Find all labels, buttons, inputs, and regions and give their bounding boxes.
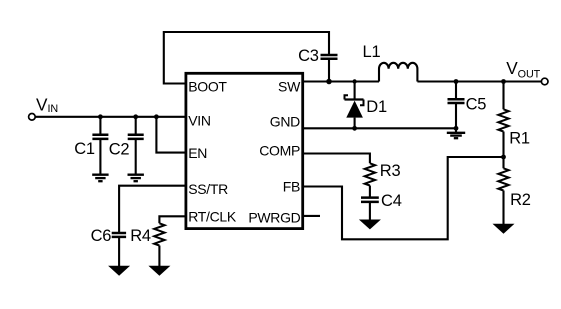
svg-text:PWRGD: PWRGD: [248, 210, 300, 226]
ground R2 (arrow): [493, 224, 515, 234]
svg-text:R3: R3: [380, 162, 401, 180]
wire COMP: [303, 154, 370, 164]
svg-text:C6: C6: [91, 227, 112, 245]
pin PWRGD stub: [303, 215, 320, 217]
svg-text:SS/TR: SS/TR: [188, 181, 228, 197]
resistor R3: [365, 162, 401, 197]
svg-text:C3: C3: [298, 47, 319, 65]
svg-text:COMP: COMP: [259, 143, 300, 159]
inductor L1: [363, 43, 418, 81]
capacitor C6: [91, 227, 127, 266]
wire RT/CLK: [159, 216, 184, 223]
wire SS/TR: [119, 186, 184, 233]
junction SW/D1: [352, 79, 356, 83]
wire VIN input: [35, 116, 184, 118]
IC regulator body: [186, 73, 303, 228]
resistor R2: [498, 157, 531, 224]
terminal VIN: [29, 114, 36, 121]
svg-text:D1: D1: [366, 98, 387, 116]
svg-text:GND: GND: [270, 114, 300, 130]
ground C1 (earth): [92, 175, 108, 182]
junction VIN/C1: [98, 114, 103, 119]
svg-text:BOOT: BOOT: [188, 79, 227, 95]
junction VIN/C2: [133, 114, 138, 119]
svg-text:R4: R4: [130, 227, 151, 245]
svg-text:L1: L1: [363, 43, 381, 61]
svg-text:RT/CLK: RT/CLK: [188, 209, 237, 225]
svg-text:C5: C5: [466, 96, 487, 114]
svg-text:EN: EN: [188, 145, 207, 161]
svg-text:C2: C2: [109, 141, 130, 159]
junction VIN/EN tap: [154, 114, 159, 119]
ground R4 (arrow): [148, 266, 170, 276]
resistor R1: [498, 82, 530, 158]
ground C6 (arrow): [108, 266, 130, 276]
wire SW node: [303, 80, 379, 82]
svg-text:C4: C4: [381, 192, 402, 210]
capacitor C1: [74, 117, 108, 175]
junction SW/C3: [326, 79, 332, 85]
capacitor C2: [109, 117, 144, 175]
junction D1/GND: [352, 126, 357, 131]
capacitor C3: [298, 47, 337, 82]
junction C5/GND: [454, 126, 459, 131]
wire BOOT bootstrap loop: [164, 32, 329, 84]
junction FB divider: [501, 155, 506, 160]
wire VOUT node: [417, 80, 541, 82]
svg-text:FB: FB: [283, 179, 300, 195]
svg-text:C1: C1: [74, 140, 95, 158]
junction VOUT/C5: [454, 79, 459, 84]
svg-text:VIN: VIN: [188, 112, 210, 128]
svg-text:R1: R1: [509, 130, 530, 148]
wire GND rail: [303, 127, 456, 129]
svg-text:R2: R2: [510, 191, 531, 209]
ground C4 (arrow): [359, 220, 381, 230]
ground C5 (earth): [447, 133, 465, 138]
capacitor C4: [361, 192, 402, 220]
resistor R4: [130, 223, 164, 266]
capacitor C5: [448, 82, 487, 133]
junction VOUT/R1: [501, 79, 506, 84]
ground C2 (earth): [128, 175, 144, 182]
wire EN: [156, 117, 184, 153]
diode D1 (schottky): [345, 82, 388, 129]
svg-text:SW: SW: [278, 78, 301, 94]
terminal VOUT: [541, 78, 548, 85]
wire FB feedback: [303, 157, 504, 239]
